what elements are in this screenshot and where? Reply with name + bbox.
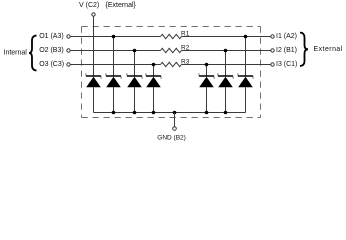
wire row 1 right segment [182, 36, 271, 38]
terminal O3 (C3) [39, 61, 70, 68]
brace right grouping external pins [300, 33, 308, 67]
junction dot bus 3 [152, 111, 156, 115]
left column 3 wire (row2) [134, 51, 136, 77]
diode D7 (TVS, anode to GND bus) [238, 73, 253, 112]
label External [314, 46, 343, 53]
junction dot row/column 5 [224, 49, 228, 53]
svg-text:I2 (B1): I2 (B1) [276, 47, 297, 54]
diode D4 (TVS, anode to GND bus) [146, 73, 161, 112]
svg-text:I1 (A2): I1 (A2) [276, 33, 297, 40]
wire row 2 right segment [182, 50, 271, 52]
junction dot bus 4 [173, 111, 177, 115]
svg-text:O1 (A3): O1 (A3) [39, 33, 64, 40]
wire GND stub [174, 113, 176, 127]
junction dot bus 6 [224, 111, 228, 115]
resistor R2 [161, 45, 190, 53]
right column 1 wire (row3) [206, 65, 208, 77]
terminal I2 (B1) [271, 47, 297, 54]
junction dot bus 1 [112, 111, 116, 115]
right column 2 wire (row2) [225, 51, 227, 77]
terminal O2 (B3) [39, 47, 70, 54]
resistor R1 [161, 31, 190, 39]
svg-text:I3 (C1): I3 (C1) [276, 61, 297, 68]
svg-text:Internal: Internal [4, 50, 28, 57]
wire ground bus [94, 112, 246, 114]
junction dot row/column 1 [112, 35, 116, 39]
diode D1 (TVS, anode to GND bus) [86, 73, 101, 112]
terminal I1 (A2) [271, 33, 297, 40]
brace left grouping internal pins [29, 36, 37, 71]
left column 4 wire (row3) [153, 65, 155, 77]
junction dot row/column 3 [152, 63, 156, 67]
terminal O1 (A3) [39, 33, 70, 40]
wire row 3 left segment [70, 64, 160, 66]
right column 3 wire (row1) [245, 37, 247, 77]
svg-text:O2 (B3): O2 (B3) [39, 47, 64, 54]
junction dot row/column 2 [133, 49, 137, 53]
diode D6 (TVS, anode to GND bus) [218, 73, 233, 112]
junction dot bus 5 [205, 111, 209, 115]
junction dot row/column 4 [205, 63, 209, 67]
package outline dashed box [82, 27, 261, 118]
resistor R3 [161, 59, 190, 67]
terminal I3 (C1) [271, 61, 298, 68]
wire row 2 left segment [70, 50, 160, 52]
terminal V (C2) [79, 2, 137, 16]
svg-text:External: External [314, 46, 343, 53]
terminal GND (B2) [157, 127, 186, 142]
svg-text:GND (B2): GND (B2) [157, 134, 186, 141]
label Internal [4, 50, 28, 57]
left column 2 wire (row1) [113, 37, 115, 77]
V column wire [93, 16, 95, 76]
wire row 3 right segment [182, 64, 271, 66]
svg-text:O3 (C3): O3 (C3) [39, 61, 64, 68]
svg-text:{External}: {External} [106, 2, 137, 9]
wire row 1 left segment [70, 36, 160, 38]
diode D5 (TVS, anode to GND bus) [199, 73, 214, 112]
junction dot row/column 6 [244, 35, 248, 39]
svg-text:V (C2): V (C2) [79, 2, 99, 9]
diode D3 (TVS, anode to GND bus) [127, 73, 142, 112]
junction dot bus 2 [133, 111, 137, 115]
diode D2 (TVS, anode to GND bus) [106, 73, 121, 112]
